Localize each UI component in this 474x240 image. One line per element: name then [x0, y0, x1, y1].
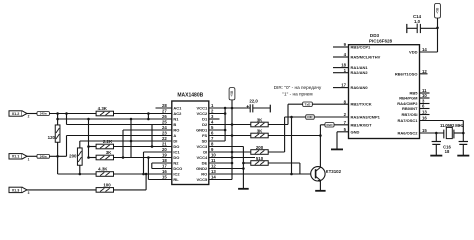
svg-text:3K: 3K: [257, 128, 263, 133]
svg-text:1,0: 1,0: [414, 19, 421, 24]
node RX column junction: [319, 134, 322, 137]
wire 200 right lead up to DIR wire: [268, 151, 284, 153]
resistor 4.3K line B: [96, 111, 113, 116]
svg-text:RB3/CCP1: RB3/CCP1: [351, 45, 372, 50]
svg-text:N1: N1: [173, 117, 179, 122]
wire bus V1 vertical: [231, 100, 233, 180]
svg-text:RB7/OSI: RB7/OSI: [401, 112, 417, 117]
wire VDD rail vertical: [437, 18, 439, 52]
wire colG down: [143, 152, 145, 174]
wire pin7 row: [209, 140, 225, 142]
svg-text:RB2/TX/CK: RB2/TX/CK: [351, 102, 372, 107]
wire pin3 row: [209, 118, 220, 120]
svg-text:15: 15: [422, 128, 427, 133]
wire row pin19 with 3K: [89, 157, 97, 159]
svg-text:4.3K: 4.3K: [98, 106, 108, 111]
svg-text:18: 18: [445, 149, 450, 154]
svg-text:D1: D1: [202, 117, 208, 122]
wire RX from PIC pin7 down to collector: [320, 124, 348, 126]
node crystal left junction: [435, 132, 438, 135]
svg-text:4.3K: 4.3K: [98, 167, 108, 172]
node colG row16: [142, 173, 145, 176]
node row19 col148: [147, 156, 150, 159]
svg-text:510: 510: [256, 156, 264, 161]
node crystal right junction: [462, 132, 465, 135]
svg-text:RB1/RX/DT: RB1/RX/DT: [351, 122, 373, 127]
flag line B protection: [37, 112, 49, 116]
node bus V1 junction: [231, 123, 234, 126]
wire pin8 row: [209, 146, 244, 148]
svg-text:RA2/AN2: RA2/AN2: [351, 70, 369, 75]
svg-text:RB4/PGM: RB4/PGM: [399, 96, 418, 101]
svg-text:RA7/OSC1: RA7/OSC1: [397, 118, 418, 123]
svg-text:RxD: RxD: [326, 123, 333, 127]
svg-text:X1.2: X1.2: [12, 112, 20, 116]
resistor 3K on pin4 row: [209, 124, 251, 126]
svg-text:IC1: IC1: [173, 150, 180, 155]
wire 4.3K lower right lead: [113, 173, 172, 175]
node pin11 bus: [231, 162, 234, 165]
wire stub pin28: [156, 107, 172, 109]
svg-text:PIC16F628: PIC16F628: [369, 39, 393, 44]
flag RxD: [325, 123, 334, 127]
wire colD: [88, 119, 90, 158]
node bus V0 junction: [224, 129, 227, 132]
svg-text:VCC3: VCC3: [197, 144, 208, 149]
capacitor C15 18 with ground: [435, 133, 437, 141]
wire row pin15: [148, 179, 171, 181]
node DIR wire junction: [290, 116, 293, 119]
node row27 col148: [147, 112, 150, 115]
svg-text:"1" - на прием: "1" - на прием: [282, 91, 312, 96]
wire row pin22: [80, 140, 172, 142]
svg-text:2.2K: 2.2K: [103, 139, 113, 144]
svg-text:N2: N2: [173, 161, 179, 166]
svg-text:AC2: AC2: [173, 111, 182, 116]
wire pin11 to bus: [209, 162, 232, 164]
svg-text:3K: 3K: [106, 150, 112, 155]
svg-text:16: 16: [422, 116, 427, 121]
wire row pin18: [152, 162, 172, 164]
svg-text:345н: 345н: [40, 154, 47, 158]
svg-text:TxD: TxD: [305, 102, 312, 106]
wire pin5 row: [209, 129, 225, 131]
wire X1.1 row: [26, 155, 37, 157]
svg-text:RB6/T1OSO: RB6/T1OSO: [395, 71, 418, 76]
svg-text:SD: SD: [202, 139, 208, 144]
svg-text:X1.1: X1.1: [12, 155, 20, 159]
ground under MAX bus: [238, 188, 249, 190]
wire 3K#1 right lead up to TXD: [268, 124, 288, 126]
wire colB lower: [66, 136, 68, 157]
wire 3K#2 right lead to RX column: [268, 135, 320, 137]
node bus V1 junction: [231, 107, 234, 110]
svg-text:VCC1: VCC1: [197, 106, 208, 111]
wire col152: [151, 125, 153, 147]
ground at PIC pin5: [331, 148, 343, 150]
connector X1.2: [9, 111, 22, 116]
svg-text:AC1: AC1: [173, 106, 182, 111]
svg-text:VCC2: VCC2: [197, 111, 208, 116]
wire col131 down: [130, 119, 132, 158]
svg-text:DO: DO: [173, 144, 179, 149]
svg-text:345н: 345н: [40, 112, 47, 116]
wire 510 right lead down to base row: [268, 162, 300, 164]
svg-text:A: A: [173, 133, 176, 138]
node row27 colA: [56, 112, 59, 115]
svg-text:B: B: [173, 122, 176, 127]
svg-text:GND1: GND1: [196, 128, 208, 133]
node row21 colD: [87, 145, 90, 148]
svg-text:RA0/AN0: RA0/AN0: [351, 85, 369, 90]
svg-text:VCC5: VCC5: [197, 177, 208, 182]
svg-text:MAX1480B: MAX1480B: [177, 93, 203, 99]
wire pin2 row: [209, 113, 225, 115]
node row26 col131: [130, 118, 133, 121]
wire base row from U1 pin13: [209, 173, 315, 175]
node row19 colD: [87, 156, 90, 159]
node col131 row22: [130, 140, 133, 143]
resistor 3K lower: [96, 155, 113, 160]
resistor 120 vertical: [55, 125, 60, 142]
node col123 row19: [122, 156, 125, 159]
wire pin10 row: [209, 157, 255, 159]
svg-text:DO: DO: [173, 155, 179, 160]
wire V0 vertical: [224, 108, 226, 141]
svg-text:DI: DI: [173, 139, 177, 144]
svg-text:22,0: 22,0: [249, 99, 258, 104]
svg-text:120: 120: [48, 135, 56, 140]
wire row pin24: [123, 129, 172, 131]
wire DIR row: [285, 116, 349, 118]
DD3 unconnected right stubs pins 12,11,10,3,6,13: [420, 73, 428, 75]
svg-text:17: 17: [341, 83, 346, 88]
power flag +5V above MAX bus: [229, 88, 235, 100]
node base row junction: [290, 173, 293, 176]
wire colB upper: [66, 114, 68, 125]
wire pin16 OSC1 to crystal right: [420, 120, 464, 122]
wire pin14 to rail: [420, 51, 438, 53]
wire row pin25: [67, 124, 172, 126]
svg-text:3: 3: [28, 191, 30, 195]
node VDD junction: [436, 27, 439, 30]
wire X1.2 row pin27: [26, 113, 37, 115]
connector X1.1: [9, 154, 22, 159]
node row16 colI: [145, 173, 148, 176]
node row27 colB: [65, 112, 68, 115]
resistor 510: [243, 162, 250, 164]
wire col123 down: [122, 130, 124, 158]
svg-text:DD3: DD3: [370, 33, 380, 38]
wire pin1 row: [209, 107, 250, 109]
svg-text:DIR: "0" - на передачу: DIR: "0" - на передачу: [274, 85, 322, 90]
wire V2 ground column: [242, 147, 244, 189]
wire colA bottom corner row16: [58, 173, 97, 175]
node row26 colA: [56, 118, 59, 121]
wire 200 bottom lead: [79, 165, 81, 174]
svg-text:RA3/AN3/CMP1: RA3/AN3/CMP1: [351, 115, 381, 120]
wire row pin23 line A: [67, 135, 172, 137]
wire pin15 OSC2 to crystal left: [420, 132, 444, 134]
wire colA lower: [57, 142, 59, 174]
wire X1.3 row: [26, 189, 97, 191]
node row21 col152: [151, 145, 154, 148]
svg-text:DE: DE: [202, 161, 208, 166]
wire row pin26: [58, 118, 172, 120]
wire DIR column down to base: [291, 117, 293, 174]
flag TxD: [303, 102, 313, 106]
svg-text:2: 2: [28, 115, 30, 119]
capacitor C16 18 with ground: [462, 133, 464, 141]
svg-text:RL: RL: [173, 177, 179, 182]
resistor 200 vertical: [77, 148, 82, 165]
wire row pin20: [144, 151, 172, 153]
wire colA upper: [57, 114, 59, 126]
svg-text:3K: 3K: [257, 117, 263, 122]
resistor 2.2K: [96, 144, 113, 149]
resistor 4.3K lower: [96, 172, 113, 177]
svg-text:12: 12: [422, 69, 427, 74]
node bus V1 junction: [231, 151, 234, 154]
flag line A protection: [37, 154, 49, 158]
svg-text:RO: RO: [201, 172, 207, 177]
wire pin14 row: [209, 179, 232, 181]
svg-text:FS: FS: [202, 133, 207, 138]
node bus V0 top junction: [224, 107, 227, 110]
svg-text:DI: DI: [203, 150, 207, 155]
svg-text:RB0/INT: RB0/INT: [402, 106, 418, 111]
svg-text:X1.3: X1.3: [12, 188, 20, 192]
svg-text:+5B: +5B: [230, 90, 234, 97]
flag DIR: [306, 115, 314, 119]
svg-text:GND2: GND2: [196, 166, 208, 171]
svg-text:RA6/OSC2: RA6/OSC2: [397, 131, 418, 136]
svg-text:+5B: +5B: [436, 7, 440, 14]
wire 100 right lead and colI: [113, 189, 146, 191]
svg-text:DIR: DIR: [307, 115, 313, 119]
node row26 colD: [87, 118, 90, 121]
U1 pin stubs, numbers and pin names: [156, 107, 172, 109]
svg-text:13: 13: [422, 110, 427, 115]
microcontroller DD3 PIC16F628 body and title: [349, 45, 420, 139]
wire pin12 row: [209, 168, 244, 170]
svg-text:VCC4: VCC4: [197, 155, 208, 160]
power flag +5V above C14: [435, 4, 441, 19]
node bus V1 junction: [231, 134, 234, 137]
wire col148 down: [147, 114, 149, 120]
node bus V0 junction: [224, 112, 227, 115]
wire col151 step: [151, 163, 153, 169]
wire row pin17: [152, 168, 172, 170]
svg-text:RA5/MCLR/THV: RA5/MCLR/THV: [351, 55, 381, 60]
wire col148 lower: [147, 158, 149, 180]
svg-text:DCO: DCO: [173, 166, 182, 171]
connector X1.3: [9, 187, 22, 192]
ground at Q1 emitter: [315, 190, 325, 192]
op-amp U1 MAX1480B isolated RS-485 IC body: [172, 101, 209, 185]
node 200 bottom row16: [79, 173, 82, 176]
node bus V1 junction: [231, 156, 234, 159]
svg-text:200: 200: [69, 154, 77, 159]
wire PIC pin5 to ground: [337, 131, 349, 133]
svg-text:VDD: VDD: [409, 50, 418, 55]
resistor 100: [96, 188, 113, 193]
svg-text:GND: GND: [351, 129, 360, 134]
svg-text:200: 200: [256, 145, 264, 150]
svg-text:14: 14: [422, 47, 427, 52]
svg-text:КТ3102: КТ3102: [326, 169, 342, 174]
wire row pin21 with 2.2K: [89, 146, 97, 148]
svg-text:10: 10: [422, 93, 427, 98]
svg-text:100: 100: [103, 182, 111, 187]
node V2 pin12 junction: [242, 167, 245, 170]
resistor 200 on pin9 row: [209, 151, 251, 153]
svg-text:RO: RO: [173, 128, 179, 133]
node X1.1 colA: [56, 155, 59, 158]
transistor Q1 KT3102: [311, 167, 325, 181]
svg-text:D2: D2: [202, 122, 208, 127]
wire 200 top lead: [79, 141, 81, 148]
resistor 3K on pin6 row: [209, 135, 251, 137]
svg-text:1: 1: [28, 158, 30, 162]
svg-text:IC2: IC2: [173, 172, 180, 177]
node V2 510 junction: [242, 162, 245, 165]
node row26 col148: [147, 118, 150, 121]
